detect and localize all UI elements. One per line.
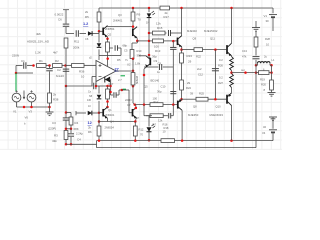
capacitor fb row: [76, 30, 78, 37]
ground input: [49, 107, 51, 112]
svg-text:Q10: Q10: [216, 105, 222, 109]
diode D1: [98, 31, 100, 42]
svg-text:R27: R27: [218, 81, 223, 85]
node x135 y121: [134, 120, 137, 123]
cap row B: [163, 115, 168, 117]
tail join: [96, 141, 98, 148]
node out junction: [132, 69, 135, 72]
svg-text:C10: C10: [161, 85, 166, 89]
node D4 b: [109, 91, 112, 94]
svg-text:MJE340: MJE340: [187, 29, 197, 33]
svg-text:C4: C4: [77, 138, 81, 142]
D7 hang: [148, 116, 150, 127]
cap after R15: [165, 32, 167, 34]
battery V1: [272, 8, 274, 13]
node Q9 emitter: [180, 48, 183, 51]
svg-text:100: 100: [154, 45, 159, 49]
capacitor C8 row: [144, 66, 158, 68]
Q11 emitter: [231, 55, 233, 58]
svg-text:C6: C6: [58, 18, 62, 22]
transistor Q8: [178, 99, 182, 110]
Q3 emitter wire: [136, 38, 138, 41]
capacitor under R1R2 node: [49, 66, 51, 69]
svg-text:Q4: Q4: [110, 119, 114, 123]
svg-text:R10: R10: [137, 49, 142, 53]
zigzag R26: [230, 57, 234, 71]
resistor R15 row: [149, 32, 153, 34]
svg-text:0.2: 0.2: [219, 58, 223, 62]
bias ladder: [214, 50, 216, 100]
wire y86 ext: [99, 85, 111, 87]
ground top right: [255, 21, 257, 28]
node row B x149: [146, 115, 152, 117]
svg-text:R11: R11: [74, 40, 79, 44]
svg-text:70: 70: [140, 133, 143, 137]
node C9 tee: [172, 40, 175, 43]
node R1-R2: [48, 64, 51, 67]
svg-text:220N: 220N: [12, 54, 19, 58]
svg-text:R36: R36: [79, 70, 85, 74]
svg-text:V1: V1: [264, 14, 268, 18]
svg-text:R6: R6: [88, 130, 92, 134]
Q5 collector: [139, 55, 146, 57]
svg-text:V1: V1: [13, 110, 17, 114]
node x133 y86: [132, 85, 135, 88]
svg-text:12k: 12k: [156, 22, 161, 26]
svg-text:1.2K: 1.2K: [35, 51, 41, 55]
resistor R5: [97, 12, 101, 22]
capacitor fb-opamp: [94, 83, 96, 90]
node x133 y58: [132, 57, 135, 60]
wire opamp out: [116, 70, 133, 72]
svg-text:2u: 2u: [264, 55, 267, 59]
stub wire: [16, 72, 33, 74]
svg-text:Q1: Q1: [108, 108, 112, 112]
Q4 emitter: [135, 118, 137, 121]
node rail x182: [180, 7, 183, 10]
wire input: [16, 65, 23, 67]
svg-text:V6: V6: [25, 116, 29, 120]
wire V+ rail: [99, 7, 273, 9]
node L1 left: [255, 64, 258, 67]
node Q10 base: [214, 98, 217, 101]
svg-text:1.8k: 1.8k: [135, 62, 141, 66]
node D4 a: [109, 85, 112, 88]
wire div bottom: [66, 143, 97, 145]
node R2 out: [64, 64, 67, 67]
svg-text:C12: C12: [198, 73, 203, 77]
Q10 collector: [231, 106, 233, 107]
Q5 base: [148, 55, 150, 57]
svg-text:10: 10: [81, 75, 85, 79]
resistor R16: [150, 114, 163, 118]
node y86 x96: [95, 85, 98, 88]
svg-text:2N6554: 2N6554: [105, 27, 115, 31]
row y121: [99, 121, 136, 123]
Q8 collector: [181, 110, 183, 140]
svg-text:R19: R19: [260, 78, 265, 82]
svg-text:MJE350: MJE350: [188, 113, 199, 117]
capacitor C4: [70, 129, 72, 133]
svg-text:MJE15032: MJE15032: [204, 29, 218, 33]
svg-text:2N6554: 2N6554: [105, 126, 115, 130]
svg-text:R1: R1: [39, 59, 43, 63]
svg-text:6mk2O: 6mk2O: [56, 75, 64, 78]
node fb mid: [65, 85, 68, 88]
Q2 emitter: [107, 37, 109, 39]
node Q2 emitter: [106, 38, 109, 41]
svg-text:R26: R26: [218, 64, 223, 68]
svg-text:R22: R22: [196, 55, 201, 59]
resistor R2: [53, 64, 63, 68]
wire input corner: [15, 66, 17, 74]
node div mid b: [70, 128, 73, 131]
node L1 right: [270, 64, 273, 67]
capacitor C7: [111, 94, 114, 96]
svg-text:R13: R13: [155, 49, 161, 53]
capacitor C10: [170, 92, 176, 94]
node output mid: [231, 71, 233, 74]
resistor R9: [131, 12, 135, 21]
svg-text:10: 10: [163, 130, 166, 134]
svg-text:R14: R14: [154, 101, 159, 104]
svg-text:4k7: 4k7: [53, 51, 58, 55]
svg-text:12k: 12k: [158, 118, 163, 122]
node y141 x99: [98, 139, 101, 142]
svg-text:R3: R3: [54, 134, 58, 138]
svg-text:68K: 68K: [74, 127, 79, 131]
node Q4 col: [135, 107, 138, 110]
resistor R28: [255, 32, 257, 38]
svg-text:R38: R38: [53, 98, 59, 102]
transistor Q11: [227, 43, 232, 56]
wire Q3e to R13 row: [137, 40, 149, 42]
svg-text:R5: R5: [85, 15, 89, 19]
transistor Q9: [178, 36, 182, 47]
node x149 y41: [148, 40, 151, 43]
resistor R3: [64, 131, 68, 140]
resistor R17 on rail: [160, 6, 170, 10]
svg-text:0.0022: 0.0022: [55, 13, 64, 17]
node net out2 green: [121, 89, 124, 92]
node y86 r37: [106, 85, 109, 88]
Q9 collector: [181, 34, 183, 37]
diode D3: [88, 111, 92, 116]
node row A x135: [134, 103, 137, 106]
svg-text:2.2Kp: 2.2Kp: [76, 132, 84, 136]
svg-text:70: 70: [138, 18, 142, 22]
svg-text:29: 29: [187, 81, 190, 85]
node supply: [106, 57, 109, 60]
node rail output spine: [230, 7, 233, 10]
capacitor C13: [255, 47, 257, 56]
node y141 x182: [181, 139, 184, 142]
svg-text:10: 10: [266, 43, 269, 47]
op-amp U2 triangle: [96, 61, 116, 82]
rail drop x149: [148, 8, 150, 12]
background grid: [0, 0, 282, 150]
rail drop x133: [132, 8, 134, 12]
svg-text:1.2: 1.2: [83, 22, 88, 26]
bottom return row: [97, 147, 257, 149]
svg-text:Q11: Q11: [210, 37, 215, 41]
row A wire: [135, 104, 177, 106]
node x149 y33: [148, 32, 151, 35]
node Q3 emitter: [136, 40, 139, 43]
capacitor C12: [212, 69, 219, 71]
node out b: [255, 71, 258, 74]
row B wire: [144, 115, 150, 117]
terminal C6 top: [63, 9, 69, 11]
node Q1 base: [98, 111, 101, 114]
svg-text:C1: C1: [21, 59, 25, 63]
svg-text:MJE15033: MJE15033: [210, 113, 224, 117]
svg-text:1u: 1u: [157, 70, 160, 74]
diode D4: [105, 77, 110, 83]
node input stub: [15, 72, 18, 75]
svg-text:C8: C8: [158, 62, 162, 66]
svg-text:2u2: 2u2: [197, 67, 202, 71]
svg-text:R23: R23: [187, 54, 193, 58]
svg-text:R16: R16: [163, 122, 168, 126]
resistor R25: [196, 97, 208, 101]
wire fb mid: [65, 66, 67, 87]
node src a: [23, 106, 26, 109]
svg-text:R28: R28: [265, 37, 270, 41]
node div mid a: [65, 128, 68, 131]
svg-text:V4: V4: [262, 131, 266, 135]
svg-text:4k6: 4k6: [36, 32, 41, 36]
Q4 collector: [135, 105, 137, 108]
transistor Q1: [99, 112, 103, 114]
Q1 emitter: [107, 118, 109, 121]
svg-text:Q8: Q8: [193, 105, 197, 109]
node Q11 base: [214, 48, 217, 51]
Q5 emitter: [144, 67, 146, 69]
transistor Q4: [129, 112, 132, 114]
svg-text:Q2: Q2: [108, 32, 112, 36]
capacitor C6 0.0022: [63, 24, 70, 26]
node Q2 base: [98, 30, 101, 33]
inductor L1: [258, 62, 271, 64]
transistor Q5: [146, 56, 150, 67]
resistor R1: [37, 64, 47, 68]
svg-text:R18: R18: [164, 126, 169, 130]
terminal net12: [75, 111, 77, 115]
svg-text:2.7: 2.7: [118, 78, 122, 82]
pot resistor: [131, 73, 135, 85]
svg-text:out: out: [241, 68, 245, 72]
svg-text:U2: U2: [127, 63, 131, 67]
svg-text:C6: C6: [85, 37, 89, 41]
row B drop: [143, 105, 145, 116]
svg-text:430: 430: [87, 99, 92, 102]
resistor R11: [64, 38, 68, 48]
wire Q2 base stub: [99, 30, 103, 32]
wire Q9e to R22: [182, 49, 195, 51]
node D7 bottom: [148, 139, 151, 142]
green tick out: [121, 75, 126, 77]
Q8 emitter hook: [180, 98, 183, 101]
svg-text:43k: 43k: [52, 139, 57, 143]
capacitor C5: [109, 47, 113, 49]
resistor R22: [194, 48, 203, 52]
resistor R4 parallel: [66, 112, 71, 114]
node R37 bottom: [106, 106, 109, 109]
svg-text:C3: C3: [52, 121, 56, 125]
svg-text:R24: R24: [186, 86, 191, 90]
Q4 base column: [128, 90, 130, 113]
svg-text:0.2: 0.2: [219, 76, 223, 80]
Q10 emitter: [231, 88, 233, 93]
svg-text:R9: R9: [137, 13, 141, 17]
node y141 spine: [230, 139, 233, 142]
node Q5 emitter: [143, 74, 146, 77]
zobel column: [255, 73, 257, 148]
node src b: [30, 106, 33, 109]
wire x99 to opamp: [98, 55, 100, 60]
svg-text:R25: R25: [199, 92, 204, 96]
capacitor C2: [63, 69, 70, 71]
node x149 y55: [148, 54, 151, 57]
wire join y55: [99, 54, 108, 56]
wire to R20: [271, 65, 273, 80]
svg-text:12: 12: [88, 121, 92, 125]
spine C9 C8 C10: [172, 41, 174, 47]
node row A C10: [172, 103, 175, 106]
ground above V4: [269, 117, 277, 121]
svg-text:2N6401: 2N6401: [113, 19, 123, 23]
fb row wire: [66, 33, 74, 35]
node div bot b: [70, 143, 73, 146]
opamp in- drop: [91, 77, 93, 87]
svg-text:200k: 200k: [73, 46, 80, 50]
node divider top: [65, 111, 68, 114]
resistor R19 out: [256, 72, 259, 74]
source V3: [27, 93, 36, 102]
svg-text:R37: R37: [109, 82, 114, 86]
svg-text:68p: 68p: [123, 44, 128, 48]
green wire: [15, 73, 17, 91]
svg-text:D7: D7: [153, 122, 157, 126]
svg-text:Q5: Q5: [144, 85, 148, 89]
node x99 y121: [98, 120, 101, 123]
ground R20: [268, 93, 276, 97]
resistor R13 row: [149, 40, 153, 42]
svg-text:36p: 36p: [157, 90, 162, 94]
node y141 x135: [134, 139, 137, 142]
svg-text:C2: C2: [57, 68, 61, 72]
resistor R37 vert: [107, 86, 109, 89]
diode D8 fb row: [88, 31, 92, 36]
svg-text:36p: 36p: [152, 55, 157, 59]
svg-text:30: 30: [266, 19, 270, 23]
wire fb lower: [65, 86, 67, 113]
LED D5: [147, 13, 152, 17]
svg-text:R15: R15: [157, 26, 163, 30]
resistor R18: [161, 139, 175, 143]
source V2: [12, 93, 21, 102]
svg-text:2N6401: 2N6401: [105, 113, 115, 117]
svg-text:V3: V3: [29, 110, 33, 114]
node row A x143: [143, 103, 146, 106]
node out a: [244, 71, 247, 74]
svg-text:BD140: BD140: [151, 79, 160, 83]
svg-text:R20: R20: [261, 83, 266, 87]
battery V4: [272, 122, 274, 129]
capacitor C1: [24, 62, 26, 69]
svg-text:(220P): (220P): [48, 127, 56, 131]
node R19 right: [270, 71, 273, 74]
svg-text:R5: R5: [117, 58, 121, 62]
svg-text:AD825_15V_AD: AD825_15V_AD: [27, 40, 50, 44]
transistor Q10: [227, 93, 232, 106]
svg-text:39: 39: [190, 92, 193, 96]
resistor R12: [134, 122, 136, 127]
svg-text:Q9: Q9: [193, 37, 197, 41]
resistor R14: [150, 103, 163, 107]
transistor Q2: [103, 26, 107, 37]
resistor R24: [180, 80, 184, 90]
node src c: [48, 106, 51, 109]
transistor Q3: [133, 27, 137, 38]
svg-text:29: 29: [188, 60, 192, 64]
svg-text:R4: R4: [75, 121, 79, 125]
Q11 collector: [231, 42, 233, 43]
opamp supply pin: [107, 55, 109, 66]
bottom row y141: [97, 140, 274, 142]
node rail x149: [148, 7, 151, 10]
svg-text:C5: C5: [124, 49, 128, 53]
svg-text:R2: R2: [55, 59, 59, 63]
wire x133 down: [132, 85, 134, 103]
output row: [232, 72, 257, 74]
node C1-R1: [32, 64, 35, 67]
resistor R36: [66, 65, 72, 67]
svg-text:47k: 47k: [242, 55, 247, 59]
node R37 mid: [106, 100, 109, 103]
node rail x133: [132, 7, 135, 10]
svg-text:32: 32: [263, 125, 266, 129]
svg-text:5k6GB: 5k6GB: [135, 76, 139, 84]
svg-text:C13: C13: [242, 49, 247, 53]
wire x99 gap: [98, 113, 100, 122]
annotation arrow: [23, 91, 25, 100]
node Q8 emitter: [180, 98, 183, 101]
svg-text:Q3: Q3: [118, 13, 122, 17]
svg-text:R17: R17: [164, 15, 170, 19]
node div bot a: [65, 143, 68, 146]
LED D7: [147, 127, 152, 132]
svg-text:R12: R12: [139, 128, 144, 132]
Q9 emitter: [181, 47, 183, 50]
resistor R7: [107, 39, 109, 42]
wire fb row y86: [66, 85, 93, 87]
resistor R38: [48, 93, 52, 103]
svg-text:1N: 1N: [146, 21, 149, 25]
resistor R10: [136, 41, 138, 43]
wire source bottom: [17, 106, 50, 108]
wire Q8e to R25: [182, 98, 197, 100]
svg-text:220N: 220N: [125, 98, 131, 102]
node x133 y26: [132, 25, 135, 28]
rail drop x99: [98, 8, 100, 12]
svg-text:100: 100: [153, 97, 158, 101]
Q1 collector: [107, 107, 109, 108]
wire div mid: [66, 128, 71, 130]
resistor R23: [181, 50, 183, 53]
capacitor C3: [65, 113, 67, 118]
